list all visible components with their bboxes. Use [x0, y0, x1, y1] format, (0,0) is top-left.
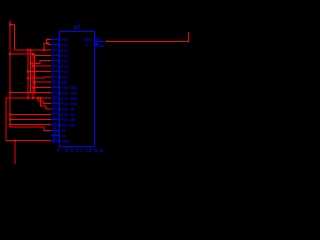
svg-text:P1.6: P1.6: [61, 70, 68, 74]
svg-text:P3.2: P3.2: [61, 97, 68, 101]
svg-text:18: 18: [53, 126, 57, 130]
svg-text:INT0: INT0: [70, 97, 77, 101]
svg-text:11: 11: [53, 89, 57, 93]
svg-text:T0: T0: [70, 107, 74, 111]
wire to pin16: [10, 119, 51, 121]
svg-text:GND: GND: [61, 140, 69, 144]
svg-text:40: 40: [95, 37, 100, 41]
pin 3 P1.2: [51, 49, 60, 51]
pin 10 P3.0: [51, 86, 60, 88]
wire to pin5: [31, 61, 52, 64]
pin 14 P3.4: [51, 108, 60, 110]
wire to pin10: [33, 86, 51, 88]
junction: [47, 43, 49, 45]
wire to pin14: [41, 98, 52, 109]
wire bus T0 to pin12: [6, 97, 51, 99]
wire mid vertical M4: [33, 55, 35, 92]
wire to pin6: [33, 65, 51, 67]
svg-text:T1: T1: [70, 113, 74, 117]
pin 15 P3.5: [51, 113, 60, 115]
junction: [9, 92, 11, 94]
svg-text:P1.4: P1.4: [61, 59, 68, 63]
svg-text:X1: X1: [61, 134, 65, 138]
wire trunk T0 vertical: [5, 98, 7, 140]
wire mid vertical M2: [30, 50, 32, 93]
wire to pin9 RST: [34, 81, 51, 83]
junction: [9, 53, 11, 55]
svg-text:P1.3: P1.3: [61, 54, 68, 58]
svg-text:P3.6: P3.6: [61, 118, 68, 122]
junction: [32, 65, 34, 67]
junction: [27, 49, 29, 51]
svg-text:15: 15: [53, 110, 57, 114]
svg-text:RD: RD: [70, 124, 75, 128]
svg-text:WR: WR: [70, 118, 76, 122]
svg-text:RXD: RXD: [70, 86, 78, 90]
wire T0 to pin20 GND: [6, 139, 51, 141]
junction: [30, 92, 32, 94]
svg-text:10: 10: [53, 83, 57, 87]
svg-text:P1.7: P1.7: [61, 75, 68, 79]
wire stub down bottom: [14, 140, 16, 164]
svg-text:P1.2: P1.2: [61, 49, 68, 53]
junction: [32, 97, 34, 99]
pin 6 P1.5: [51, 65, 60, 67]
wire VCC net: pin40 to top right: [106, 32, 189, 41]
pin 17 P3.7: [51, 124, 60, 126]
junction: [40, 97, 42, 99]
svg-text:12: 12: [53, 94, 57, 98]
pin 11 P3.1: [51, 92, 60, 94]
svg-text:14: 14: [53, 105, 57, 109]
svg-text:X2: X2: [61, 129, 65, 133]
clock marks XTAL pins: [53, 134, 56, 138]
wire trunk T2 vertical: [13, 25, 15, 50]
wire mid vertical M3: [32, 54, 34, 98]
junction: [43, 49, 45, 51]
IC U? (8051 MCU) body: [60, 32, 95, 147]
pin 20 GND: [51, 140, 60, 142]
small blue line under pin 40: [99, 45, 105, 47]
svg-text:TXD: TXD: [70, 91, 77, 95]
pin 2 P1.1: [51, 44, 60, 46]
pin 5 P1.4: [51, 60, 60, 62]
svg-text:17: 17: [53, 121, 57, 125]
pin 12 P3.2: [51, 97, 60, 99]
svg-text:P3.7: P3.7: [61, 124, 68, 128]
pin 9 RST: [51, 81, 60, 83]
pin 18 X2: [51, 129, 60, 131]
no-ERC diamond marker: [95, 43, 98, 46]
junction: [27, 97, 29, 99]
pin 19 X1: [51, 135, 60, 137]
wire staircase to pin1: [44, 39, 51, 50]
junction: [9, 24, 11, 26]
wire to pin17: [10, 123, 51, 125]
pin 7 P1.6: [51, 70, 60, 72]
junction: [33, 81, 35, 83]
svg-text:T-XS1L/8UN: T-XS1L/8UN: [57, 148, 105, 153]
svg-text:U?: U?: [74, 25, 81, 31]
pin 16 P3.6: [51, 119, 60, 121]
svg-text:13: 13: [53, 99, 57, 103]
wire to pin8: [28, 77, 51, 78]
svg-text:P1.0: P1.0: [61, 38, 68, 42]
wire to pin13: [38, 98, 51, 104]
wire bus to pin3: [14, 49, 51, 51]
svg-text:P3.4: P3.4: [61, 107, 68, 111]
junction: [30, 49, 32, 51]
junction: [9, 114, 11, 116]
wire to pin7: [28, 70, 51, 72]
svg-text:16: 16: [53, 115, 57, 119]
svg-text:RST: RST: [61, 81, 69, 85]
svg-text:INT1: INT1: [70, 102, 77, 106]
junction: [27, 77, 29, 79]
wire trunk T1 vertical: [9, 20, 11, 127]
wire to pin15: [10, 114, 51, 116]
pin 40 VCC stub: [95, 40, 105, 42]
wire bus to pin11: [10, 92, 51, 94]
wire T1-T2 link: [10, 24, 14, 26]
pin 8 P1.7: [51, 76, 60, 78]
svg-text:P3.3: P3.3: [61, 102, 68, 106]
junction: [14, 139, 16, 141]
wire mid vertical M1: [27, 50, 29, 98]
junction: [30, 62, 32, 64]
svg-text:P3.1: P3.1: [61, 91, 68, 95]
svg-text:P1.5: P1.5: [61, 65, 68, 69]
pin 4 P1.3: [51, 54, 60, 56]
svg-text:P3.0: P3.0: [61, 86, 68, 90]
wire trunk T1 end to pin18: [10, 127, 51, 130]
junction: [9, 119, 11, 121]
junction: [27, 70, 29, 72]
junction: [32, 53, 34, 55]
pin 1 P1.0: [51, 38, 60, 40]
wire to pin2: [48, 44, 51, 45]
pin 13 P3.3: [51, 103, 60, 105]
junction: [33, 92, 35, 94]
junction: [32, 86, 34, 88]
wire to pin4 with jog: [10, 54, 51, 56]
svg-text:P1.1: P1.1: [61, 43, 68, 47]
svg-text:P3.5: P3.5: [61, 113, 68, 117]
junction: [37, 97, 39, 99]
junction: [9, 123, 11, 125]
